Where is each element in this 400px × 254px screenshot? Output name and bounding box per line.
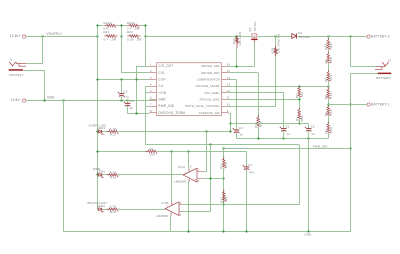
svg-text:+VIN: +VIN — [158, 91, 166, 95]
wire left GND rail — [63, 100, 65, 231]
wire trunk bank to transistor — [145, 36, 251, 38]
junction GND/left rail — [62, 99, 64, 101]
wire IC1B V+ riser — [171, 151, 173, 202]
wire PWR_IND row — [224, 148, 351, 150]
svg-text:CHG_ENBL: CHG_ENBL — [204, 91, 220, 95]
svg-text:47u: 47u — [123, 95, 129, 99]
svg-text:4.7K: 4.7K — [110, 205, 117, 209]
wire IN+ row — [204, 178, 224, 180]
wire comparator divider — [223, 148, 225, 159]
svg-text:4.7K: 4.7K — [110, 170, 117, 174]
junction trunk/battery jack — [349, 35, 351, 37]
junction battery-/pwr_ind row — [349, 147, 351, 149]
wire sense rail left — [97, 36, 99, 209]
svg-text:C1: C1 — [286, 125, 290, 129]
junction trunk/GND right — [307, 230, 309, 232]
junction LED1/IN- drop — [205, 130, 207, 132]
svg-text:R14: R14 — [150, 152, 156, 156]
wire bank bottom row segs — [103, 36, 105, 38]
svg-text:R15: R15 — [254, 122, 258, 128]
svg-text:BATTERY: BATTERY — [376, 76, 391, 80]
junction bank nodes — [96, 35, 98, 37]
svg-text:56K: 56K — [329, 57, 333, 63]
svg-text:C7: C7 — [248, 163, 252, 167]
pin BATTERY-1 — [367, 103, 370, 106]
wire jack tip drop — [42, 36, 44, 63]
junction R14 row/left rail — [96, 150, 98, 152]
svg-text:GND: GND — [47, 96, 55, 100]
diode D1 — [292, 34, 297, 39]
svg-text:−: − — [194, 169, 196, 172]
wire jack sleeve to GND — [24, 70, 45, 72]
wire bank mid to pin2 — [121, 36, 123, 73]
wire pin3 row — [97, 79, 149, 81]
pin 6 stub — [149, 99, 156, 101]
junction GND/C4 — [126, 99, 128, 101]
wire C6 drop — [121, 80, 123, 94]
svg-text:OVERCHG_IND: OVERCHG_IND — [199, 111, 220, 115]
svg-text:COMPENSATION: COMPENSATION — [197, 78, 220, 82]
svg-text:220-1/4W: 220-1/4W — [238, 32, 242, 46]
pin 14 stub — [222, 79, 229, 81]
wire bottom GND trunk — [64, 231, 351, 233]
svg-text:C/L: C/L — [158, 84, 164, 88]
junction pin13/divider col — [298, 85, 300, 87]
junction divider/IC1B IN- row — [222, 203, 224, 205]
svg-text:C3: C3 — [239, 126, 243, 130]
connector J1 supply jack — [9, 62, 16, 66]
svg-text:R10: R10 — [110, 132, 116, 136]
junction trunk/divider chain — [327, 35, 329, 37]
svg-text:R19: R19 — [271, 48, 275, 54]
wire trunk transistor to D1 — [258, 36, 292, 38]
svg-text:1u: 1u — [311, 132, 315, 136]
wire pin10 row — [229, 106, 276, 108]
pin 8 stub — [149, 112, 156, 114]
svg-text:LM358N: LM358N — [156, 214, 168, 218]
resistor R21 — [104, 35, 106, 37]
wire pin1 tie down — [136, 66, 138, 114]
svg-text:R5: R5 — [324, 95, 328, 99]
wire row 205 — [224, 204, 299, 206]
wire battery+ drop — [350, 36, 352, 67]
pin 5 stub — [149, 92, 156, 94]
wire IC1A V- drop — [188, 182, 190, 231]
wire bank right tie — [145, 26, 147, 37]
pin 13.8V+ — [22, 35, 25, 38]
wire C3 bottom row — [237, 138, 329, 140]
svg-text:R7: R7 — [324, 129, 328, 133]
wire GND row — [26, 100, 157, 102]
wire pin4/5/7 rail — [145, 86, 149, 88]
svg-text:DRIVER_SRC: DRIVER_SRC — [201, 71, 219, 75]
junction trunk/IC1A V- — [187, 230, 189, 232]
resistor R22 10K — [223, 157, 225, 159]
svg-text:300: 300 — [329, 127, 333, 133]
resistor R16 4.7K — [102, 174, 109, 176]
resistor R23A — [127, 25, 129, 27]
svg-text:C4: C4 — [130, 99, 134, 103]
svg-text:4M7: 4M7 — [329, 42, 333, 49]
op-amp IC1B LM358N — [165, 202, 179, 216]
pin 11 stub — [222, 99, 229, 101]
junction pin16/R13 — [235, 65, 237, 67]
wire pin16 row — [229, 66, 255, 68]
svg-text:1N5408: 1N5408 — [298, 35, 310, 39]
svg-text:R23A: R23A — [127, 21, 135, 25]
wire bank top row — [97, 25, 103, 27]
svg-text:R21: R21 — [104, 30, 110, 34]
junction pin9/row123 — [229, 122, 231, 124]
capacitor C2 — [308, 124, 310, 129]
svg-text:DRIVER_SNK: DRIVER_SNK — [201, 64, 219, 68]
svg-text:1K0: 1K0 — [224, 196, 228, 202]
svg-text:R21A: R21A — [104, 21, 112, 25]
svg-text:TIP107: TIP107 — [253, 21, 257, 31]
capacitor C4 — [127, 100, 129, 103]
svg-text:0.39 - 2W: 0.39 - 2W — [127, 37, 142, 41]
wire pin12 row to C1 — [229, 92, 284, 94]
svg-text:R16: R16 — [110, 176, 116, 180]
wire IN- drop — [206, 132, 208, 172]
junction row138/C2 — [307, 137, 309, 139]
svg-text:R22: R22 — [219, 163, 223, 169]
wire C2 top tie — [299, 123, 309, 125]
junction col bottom — [298, 122, 300, 124]
svg-text:4.7K: 4.7K — [110, 127, 117, 131]
svg-text:R3: R3 — [295, 94, 299, 98]
svg-text:R4: R4 — [324, 77, 328, 81]
wire IC1B IN- row — [183, 204, 224, 206]
junction pin13/chain — [327, 85, 329, 87]
svg-text:VSUPPLY: VSUPPLY — [9, 73, 24, 77]
svg-text:R17: R17 — [219, 197, 223, 203]
LED1 OVER_CHG row — [96, 130, 98, 132]
resistor R3 47K column — [299, 86, 301, 88]
junction pin8/pin1 tie — [135, 112, 137, 114]
op-amp IC1A LM358N — [183, 168, 197, 182]
pin 4 stub — [149, 86, 156, 88]
svg-text:+: + — [194, 178, 196, 181]
svg-text:LM358N: LM358N — [174, 180, 186, 184]
svg-text:BATTERY-2: BATTERY-2 — [371, 34, 390, 38]
junction battery-/row — [349, 103, 351, 105]
svg-text:47K: 47K — [300, 91, 304, 97]
svg-text:PWR_IND: PWR_IND — [313, 144, 328, 148]
op-amp U1 UC3906 box — [157, 63, 222, 116]
wire pin15 row — [229, 72, 259, 74]
junction trunk/divider — [222, 230, 224, 232]
capacitor C1 — [281, 128, 286, 130]
svg-text:PWR_IND: PWR_IND — [158, 104, 174, 108]
svg-text:470K: 470K — [300, 115, 304, 122]
wire battery sleeve — [351, 73, 378, 75]
junction PWR_IND/divider — [222, 147, 224, 149]
pin 1 stub — [149, 66, 156, 68]
pin BATTERY-2 — [367, 35, 370, 38]
pin 12 stub — [222, 92, 229, 94]
svg-text:10: 10 — [227, 102, 231, 106]
wire pin9 row123 — [231, 123, 300, 125]
svg-text:C/S-: C/S- — [158, 71, 165, 75]
divider chain resistors R2A..R7 — [328, 36, 330, 40]
svg-text:1u: 1u — [239, 133, 243, 137]
junction chain/battery row — [327, 103, 329, 105]
LED3 BULK/FLOAT row — [99, 208, 102, 211]
junction R14/IC1B V+ — [170, 150, 172, 152]
svg-text:GND: GND — [304, 233, 311, 237]
resistor R14 20 row — [97, 151, 147, 153]
wire pin13 VOLTAGE_SENSE row — [229, 86, 329, 88]
svg-text:J1: J1 — [9, 58, 13, 62]
svg-text:LED1: LED1 — [97, 126, 105, 130]
junction trunk/C7 — [245, 230, 247, 232]
wire trunk D1 to BATTERY-2 pin — [297, 36, 367, 38]
junction LED1/pin9 — [229, 130, 231, 132]
junction row138/R15 — [257, 137, 259, 139]
junction pin7 row/comparator riser — [209, 143, 211, 145]
wire 13.8V+ trunk left — [26, 36, 98, 38]
resistor R17 1K0 — [223, 190, 225, 192]
svg-text:IC1A: IC1A — [178, 165, 185, 169]
pin 2 stub — [149, 72, 156, 74]
svg-text:GND: GND — [158, 98, 166, 102]
svg-text:1K5: 1K5 — [329, 109, 333, 115]
wire bank right to pin1 — [145, 36, 147, 66]
svg-text:0.7 - 2W: 0.7 - 2W — [104, 37, 117, 41]
svg-text:R2A: R2A — [324, 43, 328, 50]
wire transistor drive riser — [254, 43, 256, 66]
svg-text:OVRCHG_TERM: OVRCHG_TERM — [158, 111, 185, 115]
junction GND/C6 — [120, 99, 122, 101]
junction divider/IN+ row — [222, 177, 224, 179]
svg-text:R13: R13 — [232, 38, 236, 44]
resistor R10 4.7K — [102, 131, 109, 133]
svg-text:10K: 10K — [224, 162, 228, 168]
resistor R18 4.7K — [102, 209, 109, 211]
svg-text:C/S+: C/S+ — [158, 78, 166, 82]
capacitor C7 47u — [246, 151, 248, 166]
svg-text:C2: C2 — [311, 125, 315, 129]
wire pin7 net right drop — [299, 145, 301, 205]
pin 13 stub — [222, 86, 229, 88]
svg-text:Q1: Q1 — [248, 27, 252, 31]
svg-text:16: 16 — [227, 62, 231, 66]
resistor R23 — [127, 35, 129, 37]
svg-text:1K3: 1K3 — [329, 75, 333, 81]
pin 16 stub — [222, 66, 229, 68]
junction pin3 nodes — [96, 78, 98, 80]
svg-text:1u: 1u — [129, 106, 133, 110]
svg-text:20: 20 — [149, 147, 153, 151]
pin 9 stub — [222, 112, 229, 114]
pin 3 stub — [149, 79, 156, 81]
junction row138/C1 — [282, 137, 284, 139]
wire pin11 row — [229, 99, 300, 101]
wire pin9 net — [229, 113, 231, 115]
svg-text:R1: R1 — [295, 117, 299, 121]
svg-text:220-1/4W 1%: 220-1/4W 1% — [277, 34, 281, 53]
junction pin11/col — [298, 98, 300, 100]
svg-text:BATTERY-1: BATTERY-1 — [371, 102, 390, 106]
wire bank left tie — [97, 26, 99, 37]
wire comparator riser — [210, 145, 212, 212]
svg-text:LED2: LED2 — [97, 170, 105, 174]
svg-text:LED3: LED3 — [97, 204, 105, 208]
junction GND/jack — [43, 99, 45, 101]
svg-text:47u: 47u — [249, 170, 255, 174]
transistor Q1 — [252, 34, 257, 38]
pin 15 stub — [222, 72, 229, 74]
svg-text:1u: 1u — [286, 132, 290, 136]
wire IC1A V+ riser — [188, 151, 190, 168]
svg-text:R6: R6 — [324, 112, 328, 116]
pin 7 stub — [149, 106, 156, 108]
wire IC1B V- drop — [170, 216, 172, 232]
resistor R13 220-1/4W — [236, 37, 238, 38]
resistor R15 10K — [257, 115, 259, 117]
svg-text:C6: C6 — [123, 90, 127, 94]
svg-text:VSUPPLY: VSUPPLY — [47, 32, 63, 36]
svg-text:R18: R18 — [110, 210, 116, 214]
svg-text:J2: J2 — [388, 59, 392, 63]
svg-text:13.8V-: 13.8V- — [11, 98, 21, 102]
wire bank mid tie — [121, 26, 123, 37]
wire GND drop right — [308, 138, 310, 231]
svg-text:R23: R23 — [127, 30, 133, 34]
wire pin8 row — [128, 113, 150, 115]
svg-text:C/S_OUT: C/S_OUT — [158, 64, 173, 68]
svg-text:13.8V+: 13.8V+ — [10, 34, 21, 38]
junction trunk/jack — [41, 35, 43, 37]
connector J2 battery jack — [376, 65, 385, 66]
junction trunk/R19 — [274, 35, 276, 37]
capacitor C3 — [234, 129, 239, 131]
svg-text:R2: R2 — [324, 59, 328, 63]
resistor R1 470K column — [298, 108, 300, 110]
LED2 PWR row — [96, 173, 98, 175]
svg-text:13: 13 — [227, 82, 231, 86]
pin 13.8V- — [22, 99, 25, 102]
svg-text:VOLTAGE_SENSE: VOLTAGE_SENSE — [195, 84, 219, 88]
junction trunk/R13 — [235, 35, 237, 37]
svg-text:TRICKLE_BIAS: TRICKLE_BIAS — [199, 98, 219, 102]
svg-text:STATE_LEVEL_CONTROL: STATE_LEVEL_CONTROL — [185, 104, 220, 108]
resistor R21A — [104, 25, 106, 27]
resistor R19 220-1/4W 1% — [275, 36, 277, 48]
pin 10 stub — [222, 106, 229, 108]
capacitor C6 — [119, 93, 124, 95]
junction IN+/riser — [209, 177, 211, 179]
wire BATTERY-1 row — [328, 104, 366, 106]
wire pin14 row to C3 — [229, 79, 237, 81]
wire pin7 mid row — [145, 144, 299, 146]
svg-text:1K3: 1K3 — [329, 92, 333, 98]
junction R14/IC1A V+ — [187, 150, 189, 152]
